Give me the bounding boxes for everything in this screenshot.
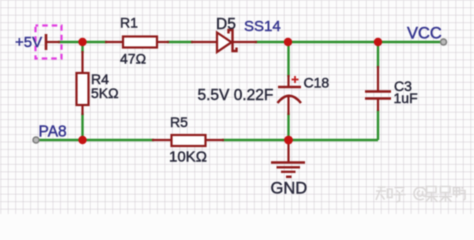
svg-text:+5V: +5V — [15, 34, 42, 51]
svg-text:R5: R5 — [170, 114, 188, 130]
svg-text:R1: R1 — [120, 15, 138, 31]
svg-text:10KΩ: 10KΩ — [169, 149, 207, 166]
svg-text:1uF: 1uF — [394, 90, 418, 106]
svg-text:C18: C18 — [304, 75, 330, 91]
svg-text:5KΩ: 5KΩ — [91, 85, 119, 101]
svg-text:47Ω: 47Ω — [120, 51, 146, 67]
svg-text:VCC: VCC — [407, 25, 442, 43]
svg-text:GND: GND — [271, 180, 308, 198]
svg-text:5.5V 0.22F: 5.5V 0.22F — [198, 87, 274, 104]
svg-text:D5: D5 — [216, 16, 236, 33]
svg-text:SS14: SS14 — [244, 18, 281, 35]
svg-text:PA8: PA8 — [39, 124, 67, 141]
